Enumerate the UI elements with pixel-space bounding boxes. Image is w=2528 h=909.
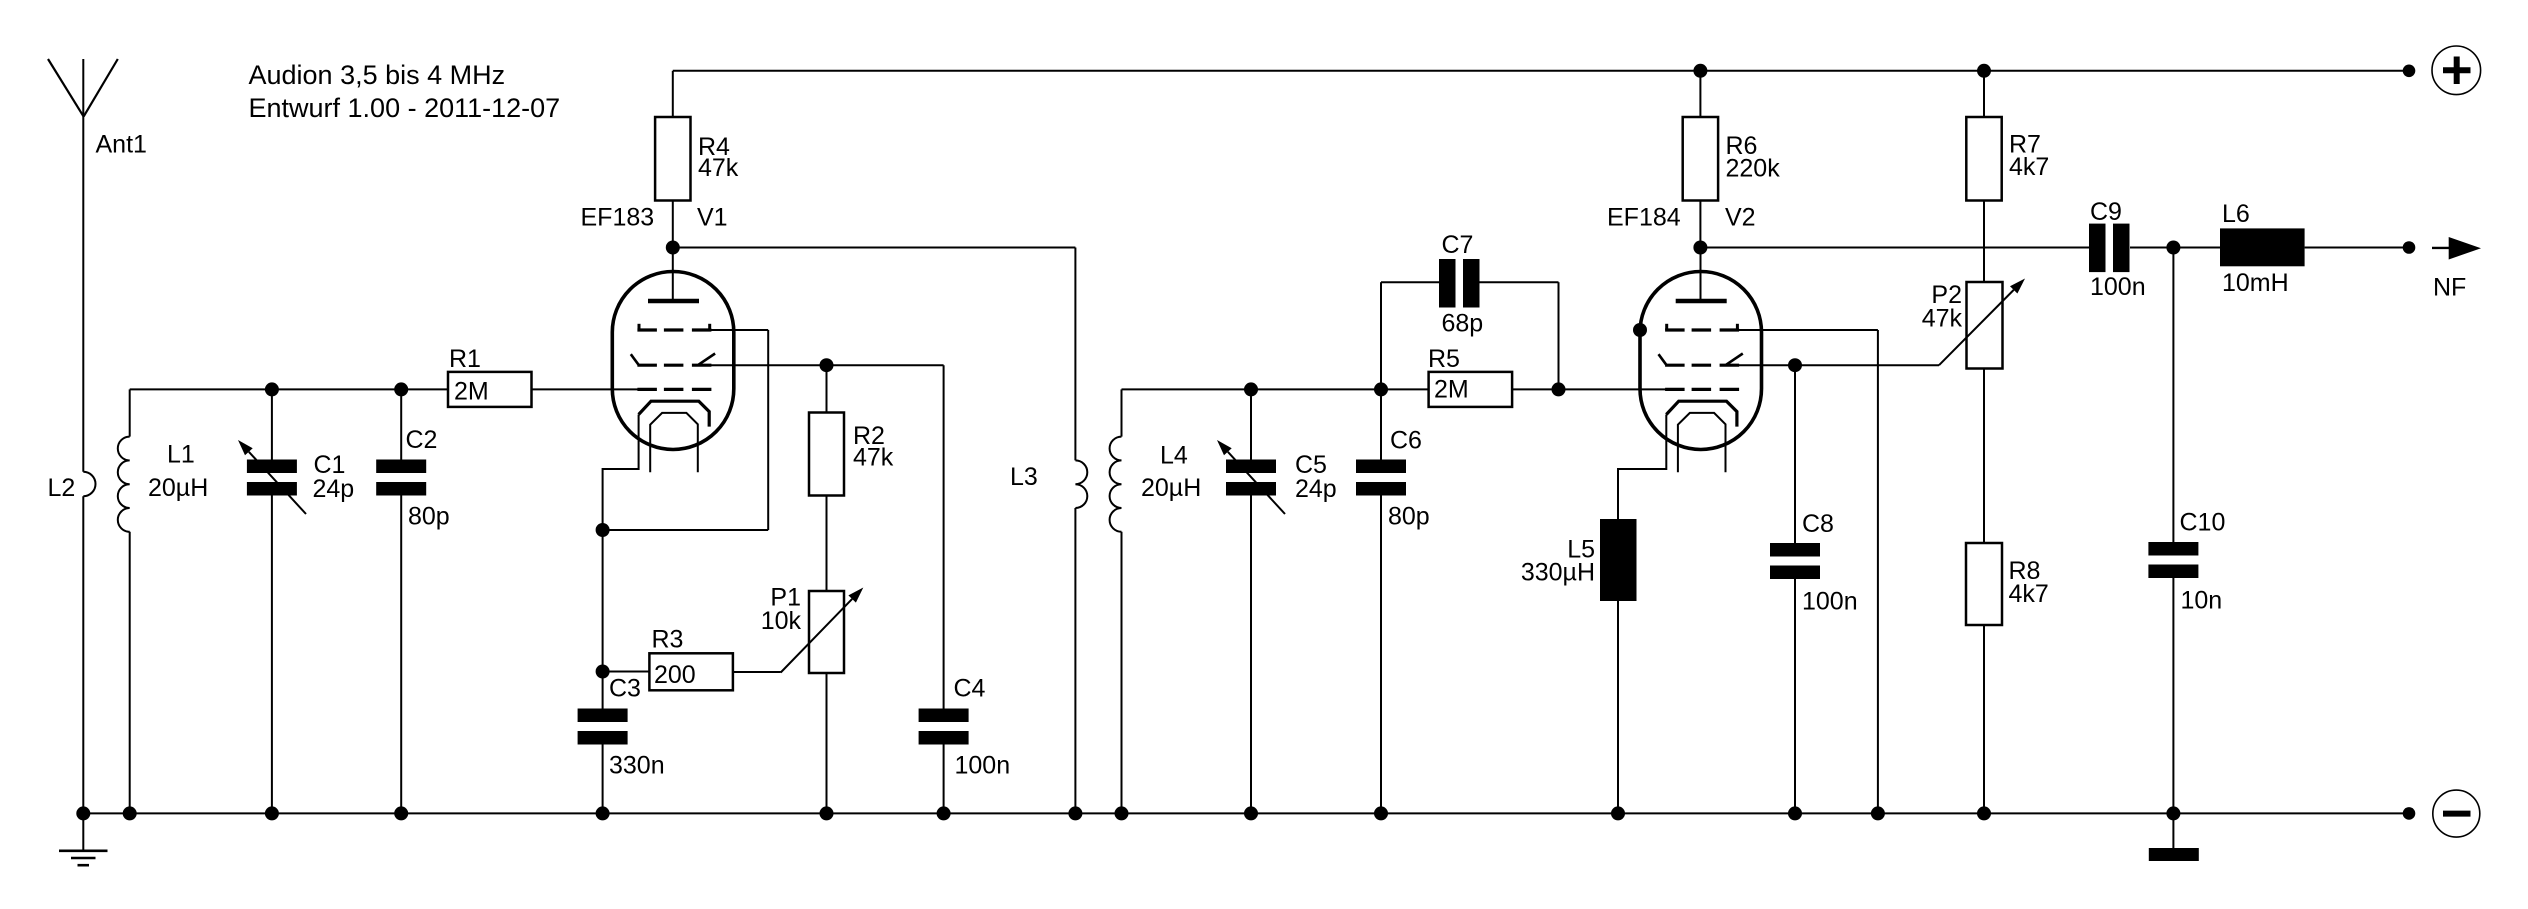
svg-text:L1: L1 [167,441,195,469]
wire R8 to ground [1983,625,1985,813]
inductor L4 winding [1110,437,1122,532]
capacitor C10 plates [2148,542,2198,556]
wire ground rail [83,812,2409,814]
wire L5 to ground [1617,601,1619,813]
wire R4 bottom to anode [672,201,674,248]
wire V2 anode to C9 [1700,247,2089,249]
potentiometer P1 wiper arrow [781,599,852,673]
capacitor C9 plates [2089,224,2106,273]
wire R4 top to + rail [672,71,674,117]
svg-text:68p: 68p [1442,310,1484,338]
wire C5 bottom lead [1250,496,1252,814]
tube V2 grid g2 (dashed) [1665,364,1685,367]
wire C6 top lead [1380,389,1382,459]
svg-text:80p: 80p [1388,503,1430,531]
node cathode/g3 junction [596,523,610,537]
capacitor C3 plates [578,709,628,723]
wire V1 g3 to cathode node [711,329,768,331]
capacitor C8 plates [1770,543,1820,557]
capacitor C1 plates [247,460,297,474]
node R7 top [1977,64,1991,78]
terminal + end dot [2403,65,2416,78]
node R2 top [820,358,834,372]
svg-text:100n: 100n [1802,588,1858,616]
svg-text:EF183: EF183 [581,204,655,232]
svg-text:L3: L3 [1010,463,1038,491]
wire V2 cathode to L5 [1618,415,1666,520]
antenna Ant1 [48,59,84,117]
node C1/ground [265,806,279,820]
wire junction to V2 g1 [1559,388,1666,390]
tube V2 envelope [1640,272,1762,450]
tube V2 anode lead [1700,248,1702,300]
svg-text:V2: V2 [1725,204,1756,232]
wire P1 to ground [826,673,828,813]
node V2 g3 shield dot [1633,323,1647,337]
NF output arrow [2432,247,2452,249]
tube V1 grid g3 (dashed) [637,328,657,331]
wire L4 top [1121,389,1123,436]
svg-text:47k: 47k [698,154,739,182]
capacitor C6 plates [1356,460,1406,474]
wire R6 top [1699,71,1701,117]
svg-text:L6: L6 [2222,200,2250,228]
capacitor C1 trimmer arrow [249,452,306,514]
wire C3 top lead [602,672,604,709]
svg-text:47k: 47k [1922,305,1963,333]
node C4/ground [937,806,951,820]
tube V1 grid g1 (dashed) [637,388,657,391]
terminal + symbol [2432,46,2481,95]
svg-text:10mH: 10mH [2222,269,2289,297]
capacitor C2 plates [376,460,426,474]
wire + supply rail [673,70,2409,72]
chassis stub below ground rail [2172,813,2174,848]
tube V1 grid g2 (dashed) [637,364,657,367]
node L3/ground [1068,806,1082,820]
tube V1 anode plate [648,299,699,304]
node C5/ground [1244,806,1258,820]
node L1/ground [123,806,137,820]
wire R6 bottom to anode [1699,201,1701,248]
wire V2 g3 to ground [1739,329,1878,331]
wire L3 bottom [1074,508,1076,813]
resistor R2 [809,413,844,496]
wire C3 bottom lead [602,745,604,814]
svg-text:2M: 2M [1434,376,1469,404]
wire C2 top lead [400,389,402,459]
node V2 anode junction [1693,241,1707,255]
wire to R3 [603,671,650,673]
wire C7 left leg [1380,282,1382,389]
node C6/ground [1374,806,1388,820]
svg-text:C7: C7 [1442,231,1474,259]
capacitor C5 trimmer arrow [1228,452,1285,514]
wire R1 to V1 g1 [532,388,639,390]
tube V1 heater filament [650,413,698,472]
wire C4 bottom lead [943,745,945,814]
wire L1 bottom [129,532,131,814]
svg-text:100n: 100n [955,752,1011,780]
svg-text:C10: C10 [2180,509,2226,537]
node C8 top [1788,358,1802,372]
node R6 top [1693,64,1707,78]
svg-text:Audion 3,5 bis 4 MHz: Audion 3,5 bis 4 MHz [249,60,506,90]
svg-text:20µH: 20µH [1141,474,1201,502]
node C6 top [1374,382,1388,396]
svg-text:L2: L2 [48,474,76,502]
node C10/ground [2166,806,2180,820]
wire C5 top lead [1250,389,1252,459]
inductor L3 winding [1075,460,1087,508]
wire R2 to P1 [826,496,828,592]
ground symbol [82,813,84,850]
node C7/R5 junction [1552,382,1566,396]
wire cathode node to R3/C3 node [602,530,604,672]
resistor R5 body [1429,372,1513,407]
wire C7 right leg [1480,281,1559,283]
wire tank2 top [1122,388,1429,390]
wire C6 bottom lead [1380,496,1382,814]
wire C8 top lead [1794,365,1796,543]
node L4/ground [1115,806,1129,820]
capacitor C5 plates [1226,460,1276,474]
node C3/ground [596,806,610,820]
tube V2 heater filament [1678,413,1726,472]
wire L1 top [129,389,131,436]
svg-text:47k: 47k [853,444,894,472]
inductor L5 body [1600,519,1637,601]
wire V1 cathode lead [603,415,639,531]
node R8/ground [1977,806,1991,820]
wire R7 top [1983,71,1985,117]
wire C10 top lead [2172,248,2174,543]
svg-text:NF: NF [2433,274,2466,302]
svg-text:C9: C9 [2090,198,2122,226]
wire C2 bottom lead [400,496,402,814]
wire g2 to C4 [943,365,945,708]
wire V2 g2 to C8 and P2 wiper [1739,364,1940,366]
tube V1 anode lead [672,248,674,300]
svg-text:C8: C8 [1802,510,1834,538]
capacitor C4 plates [919,709,969,723]
wire g2 down to R2 [826,365,828,412]
resistor R3 body [649,653,733,690]
wire C9 to node [2130,247,2220,249]
node C5 top [1244,382,1258,396]
tube V2 anode plate [1676,299,1727,304]
svg-text:220k: 220k [1726,155,1781,183]
svg-text:R5: R5 [1428,345,1460,373]
potentiometer P2 wiper arrow [1939,290,2014,365]
node L5/ground [1611,806,1625,820]
svg-text:10k: 10k [761,607,802,635]
svg-text:80p: 80p [408,503,450,531]
resistor R1 body [448,372,532,407]
node V1 anode junction [666,241,680,255]
inductor L1 winding [118,437,130,532]
wire P2 to R8 [1983,369,1985,544]
potentiometer P1 body [809,591,844,673]
resistor R4 body [655,117,690,201]
svg-text:EF184: EF184 [1607,204,1681,232]
inductor L2 coupling loop [83,472,95,496]
tube V1 cathode [639,401,710,426]
svg-text:C3: C3 [609,675,641,703]
terminal - symbol [2433,790,2480,837]
svg-text:4k7: 4k7 [2009,580,2049,608]
resistor R7 body [1966,117,2001,201]
svg-text:4k7: 4k7 [2009,153,2049,181]
svg-text:24p: 24p [313,475,355,503]
wire C1 top lead [271,389,273,459]
node P1/ground [820,806,834,820]
capacitor C7 plates [1439,259,1456,308]
tube V2 grid g3 (dashed) [1665,328,1685,331]
svg-text:330µH: 330µH [1521,559,1595,587]
inductor L6 body [2220,228,2305,266]
node antenna/ground junction [76,806,90,820]
wire R7 to P2 (crosses anode line) [1983,201,1985,283]
svg-text:R3: R3 [652,626,684,654]
svg-text:100n: 100n [2090,273,2146,301]
svg-text:330n: 330n [609,752,665,780]
wire C8 bottom lead [1794,579,1796,813]
svg-text:V1: V1 [697,204,728,232]
node C8/ground [1788,806,1802,820]
svg-text:10n: 10n [2181,587,2223,615]
tube V1 envelope [612,272,734,450]
wire V1 anode to L3 [673,247,1076,249]
wire C10 bottom lead [2172,578,2174,813]
svg-text:R1: R1 [449,345,481,373]
svg-text:Entwurf 1.00 - 2011-12-07: Entwurf 1.00 - 2011-12-07 [249,93,561,123]
wire antenna to ground rail [82,496,84,813]
node C2/ground [394,806,408,820]
wire L4 bottom [1121,532,1123,814]
wire V1 g2 to R2 and C4 [711,364,944,366]
wire C1 bottom lead [271,496,273,814]
terminal - end dot [2403,807,2416,820]
node R3/C3 junction [596,665,610,679]
terminal NF end dot [2403,241,2416,254]
svg-text:20µH: 20µH [148,474,208,502]
svg-text:200: 200 [654,661,696,689]
svg-text:C4: C4 [954,675,986,703]
node C1 top [265,382,279,396]
tube V2 grid g1 (dashed) [1665,388,1685,391]
svg-text:C2: C2 [406,426,438,454]
svg-text:C6: C6 [1390,427,1422,455]
svg-text:Ant1: Ant1 [96,131,147,159]
wire R5 to junction [1512,388,1558,390]
node C9/C10/L6 junction [2166,241,2180,255]
resistor R8 body [1966,543,2002,625]
resistor R6 body [1683,117,1718,201]
tube V2 cathode [1666,401,1737,426]
node C2 top [394,382,408,396]
svg-text:L4: L4 [1160,442,1188,470]
svg-text:2M: 2M [454,378,489,406]
svg-text:24p: 24p [1295,475,1337,503]
node V2 g3/ground [1871,806,1885,820]
wire L6 to NF terminal [2305,247,2409,249]
potentiometer P2 body [1967,282,2003,369]
wire R3 to P1 wiper [733,671,781,673]
wire tank1 top [130,388,448,390]
